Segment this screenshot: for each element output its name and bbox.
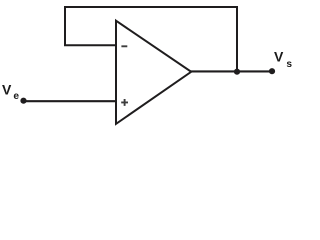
svg-text:s: s (286, 59, 292, 70)
wire feedback loop (output node up, across top, down to inverting input) (65, 7, 237, 72)
svg-text:V: V (274, 49, 284, 65)
wire output from op-amp to Vs terminal (190, 70, 272, 72)
node Ve input terminal (20, 98, 26, 104)
label Vs (274, 49, 292, 70)
node Vs output terminal (269, 68, 275, 74)
node feedback junction on output (234, 69, 240, 75)
label Ve (2, 82, 19, 103)
op-amp inverting input marker - (121, 45, 127, 47)
svg-text:V: V (2, 82, 12, 98)
wire non-inverting input from Ve terminal (23, 100, 116, 102)
svg-text:e: e (13, 91, 19, 102)
wire inverting input segment (64, 44, 116, 46)
op-amp U1 (116, 21, 191, 124)
op-amp non-inverting input marker + (121, 99, 128, 106)
